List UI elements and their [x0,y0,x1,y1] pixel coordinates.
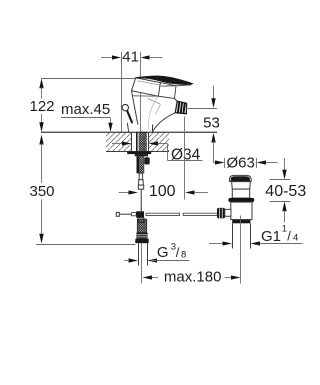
svg-text:G1: G1 [261,228,281,245]
svg-text:4: 4 [293,233,298,244]
svg-text:G: G [157,244,169,261]
svg-text:41: 41 [122,49,139,66]
svg-text:350: 350 [29,183,54,200]
svg-text:40-53: 40-53 [265,183,306,200]
svg-text:/: / [176,245,180,260]
svg-text:max.180: max.180 [164,268,222,285]
svg-text:8: 8 [181,249,186,260]
svg-text:1: 1 [282,224,287,235]
svg-text:Ø34: Ø34 [171,146,201,163]
svg-text:max.45: max.45 [61,101,110,118]
svg-text:Ø63: Ø63 [227,155,255,172]
svg-text:100: 100 [149,183,176,200]
svg-text:53: 53 [203,114,220,131]
svg-text:122: 122 [29,98,54,115]
svg-text:/: / [287,229,291,244]
